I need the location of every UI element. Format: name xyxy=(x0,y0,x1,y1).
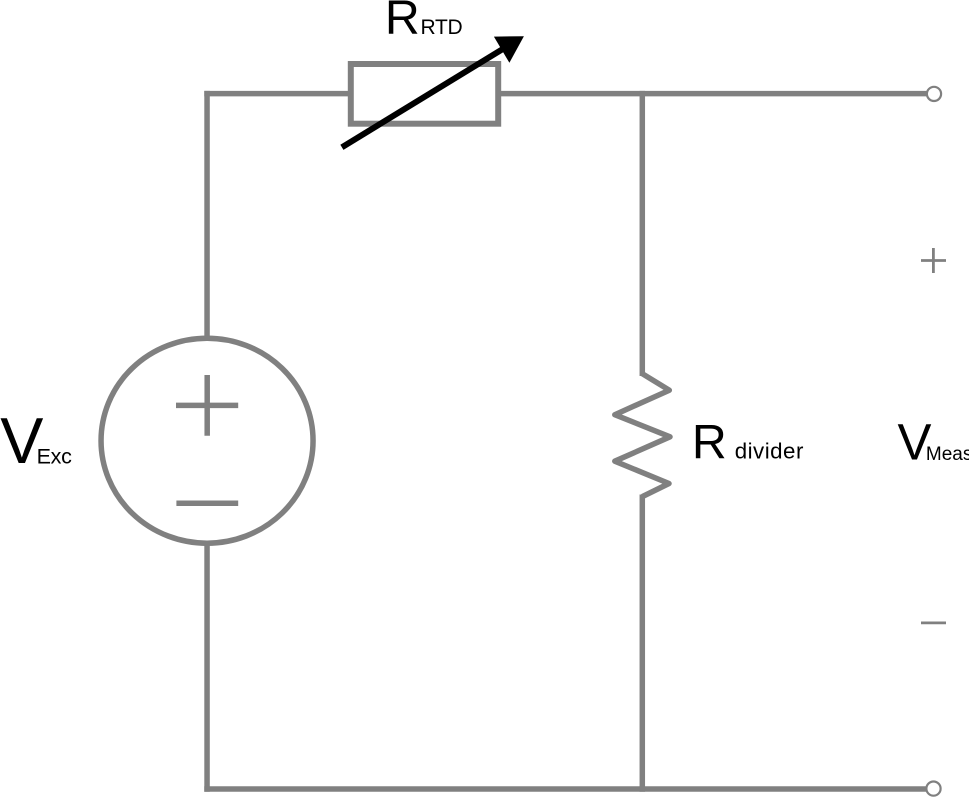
svg-text:RTD: RTD xyxy=(421,16,463,39)
svg-text:R: R xyxy=(385,0,420,45)
svg-text:Exc: Exc xyxy=(37,444,72,468)
svg-text:R: R xyxy=(692,416,727,470)
svg-text:Meas: Meas xyxy=(926,444,969,465)
svg-text:divider: divider xyxy=(735,439,804,464)
